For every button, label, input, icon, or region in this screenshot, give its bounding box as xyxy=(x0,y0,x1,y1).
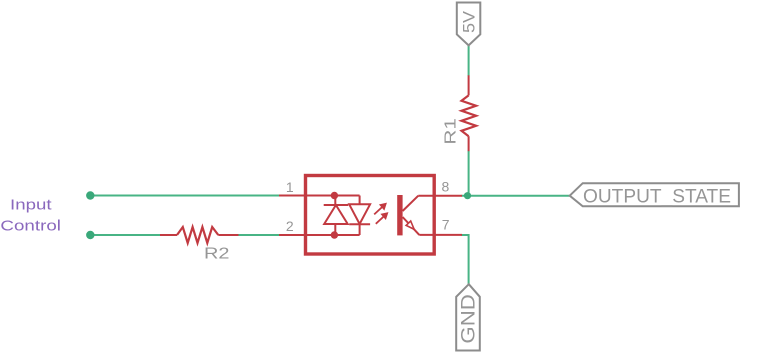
svg-text:R2: R2 xyxy=(204,246,230,263)
svg-text:7: 7 xyxy=(442,216,450,232)
svg-text:5V: 5V xyxy=(460,10,479,33)
svg-text:Control: Control xyxy=(0,219,61,235)
svg-text:GND: GND xyxy=(459,294,480,344)
svg-text:Input: Input xyxy=(10,198,52,214)
svg-text:R1: R1 xyxy=(442,118,459,145)
svg-text:2: 2 xyxy=(286,218,294,234)
svg-text:8: 8 xyxy=(442,178,450,194)
svg-text:OUTPUT_STATE: OUTPUT_STATE xyxy=(583,186,731,208)
svg-text:1: 1 xyxy=(286,179,294,195)
